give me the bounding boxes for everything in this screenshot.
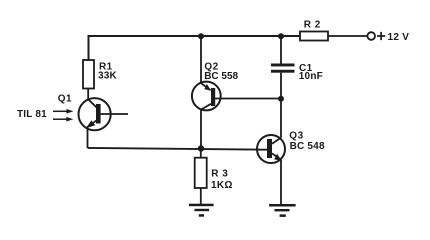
wire C1 bottom lead <box>280 73 282 99</box>
wire R3 top lead <box>200 149 202 158</box>
svg-text:R 3: R 3 <box>211 169 228 180</box>
node junction Q2 emitter on rail <box>198 33 204 39</box>
svg-text:BC 548: BC 548 <box>290 141 325 152</box>
wire Q3 emitter to ground <box>280 160 282 205</box>
wire Q2 collector down <box>200 110 202 149</box>
wire Q2 base to node <box>215 98 281 100</box>
svg-text:R 2: R 2 <box>304 20 321 31</box>
svg-text:1KΩ: 1KΩ <box>211 180 233 191</box>
wire Q1 emitter down <box>87 128 89 148</box>
resistor R2 <box>300 32 328 41</box>
wire top supply rail <box>89 36 301 61</box>
wire R1 bottom to Q1 collector <box>87 89 89 100</box>
wire R2 to supply terminal <box>328 35 367 37</box>
svg-text:10nF: 10nF <box>299 71 323 82</box>
svg-text:TIL 81: TIL 81 <box>17 109 47 120</box>
node junction C1/R2 on rail <box>278 33 284 39</box>
wire R3 to ground <box>200 188 202 204</box>
transistor Q1 <box>79 98 129 130</box>
resistor R3 <box>195 158 207 188</box>
light arrow 2 <box>53 117 73 122</box>
resistor R1 <box>83 60 94 89</box>
node junction Q2 base / Q3 collector <box>278 96 284 102</box>
ground below Q3 <box>269 204 296 217</box>
transistor Q2 <box>192 82 221 111</box>
wire Q2 emitter from rail <box>200 36 202 83</box>
svg-text:Q1: Q1 <box>58 94 72 105</box>
transistor Q3 <box>257 135 285 163</box>
wire bottom horizontal <box>88 148 268 150</box>
svg-text:33K: 33K <box>98 71 118 82</box>
label + sign <box>377 32 385 40</box>
capacitor C1 <box>271 64 295 73</box>
light arrow 1 <box>53 109 74 114</box>
terminal +12V <box>367 32 375 40</box>
wire Q3 collector up <box>280 99 282 138</box>
svg-text:BC 558: BC 558 <box>204 71 238 82</box>
ground below R3 <box>189 204 214 217</box>
svg-text:12 V: 12 V <box>388 32 410 43</box>
node junction R3/Q2 collector <box>198 145 204 151</box>
wire C1 top lead <box>280 36 282 64</box>
